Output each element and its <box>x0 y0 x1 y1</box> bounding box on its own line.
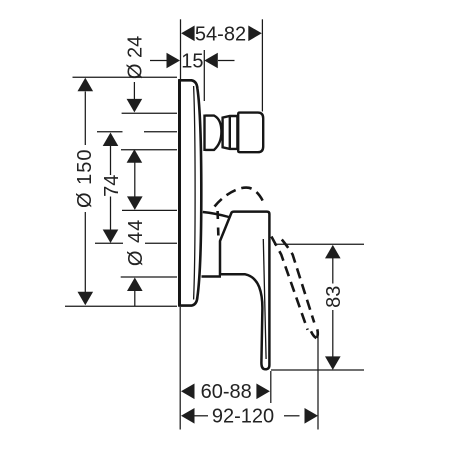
svg-text:92-120: 92-120 <box>212 405 274 427</box>
svg-text:Ø 24: Ø 24 <box>125 36 147 79</box>
svg-text:60-88: 60-88 <box>201 381 252 403</box>
svg-text:74: 74 <box>101 175 123 197</box>
svg-text:15: 15 <box>181 51 203 73</box>
svg-text:Ø 150: Ø 150 <box>74 149 96 208</box>
svg-text:Ø 44: Ø 44 <box>125 219 147 266</box>
svg-text:54-82: 54-82 <box>195 23 246 45</box>
svg-text:83: 83 <box>323 286 345 308</box>
